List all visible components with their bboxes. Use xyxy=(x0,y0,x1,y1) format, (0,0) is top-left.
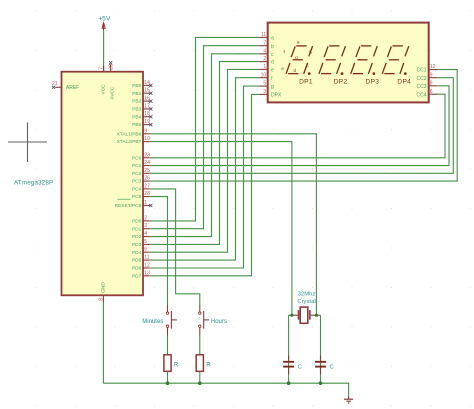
svg-text:2: 2 xyxy=(263,56,266,62)
wire XTAL1/PB6 to crystal right side xyxy=(150,134,317,315)
svg-text:R: R xyxy=(174,363,179,369)
wire resistor R2 to ground rail xyxy=(199,371,201,383)
pin PD0 2 xyxy=(132,215,150,224)
wire PD1 to display segment b xyxy=(150,46,259,229)
svg-text:4: 4 xyxy=(263,48,266,54)
pin PC3 26 xyxy=(132,176,150,185)
pin PC2 25 xyxy=(132,168,150,177)
IC U1 ATmega328P body xyxy=(62,72,144,296)
svg-text:25: 25 xyxy=(144,168,150,174)
svg-text:a: a xyxy=(297,39,300,44)
wire PC3 to display CC1 xyxy=(150,70,457,182)
svg-text:27: 27 xyxy=(144,183,150,189)
svg-text:b: b xyxy=(309,50,312,55)
7-segment digit 2 xyxy=(319,46,346,75)
pin PD5 11 xyxy=(132,255,150,264)
ground symbol xyxy=(344,396,353,403)
svg-text:PC2: PC2 xyxy=(132,171,142,177)
pin PD2 4 xyxy=(132,231,150,240)
svg-text:Crystal: Crystal xyxy=(297,299,315,305)
pin GND 8 xyxy=(98,282,106,303)
svg-text:DP4: DP4 xyxy=(397,79,411,86)
wire PD2 to display segment c xyxy=(150,54,259,237)
svg-text:7: 7 xyxy=(263,40,266,46)
svg-text:4: 4 xyxy=(144,231,147,237)
wire PD3 to display segment d xyxy=(150,62,259,245)
wire Minutes button to resistor R1 xyxy=(167,336,169,355)
svg-text:PD6: PD6 xyxy=(132,266,142,272)
svg-text:Minutes: Minutes xyxy=(142,319,163,325)
svg-text:23: 23 xyxy=(144,152,150,158)
resistor R1 xyxy=(164,355,179,372)
svg-text:15: 15 xyxy=(144,88,150,94)
pin PC4 27 xyxy=(132,183,150,192)
svg-text:10: 10 xyxy=(261,72,267,78)
pushbutton SW1 Minutes xyxy=(142,305,177,336)
svg-text:AVCC: AVCC xyxy=(109,86,115,100)
pin PC5 28 xyxy=(132,191,150,200)
svg-text:DP1: DP1 xyxy=(299,79,313,86)
svg-text:d: d xyxy=(271,60,274,66)
pin PD4 6 xyxy=(132,247,150,256)
wire crystal right node to capacitor C2 xyxy=(320,315,322,383)
svg-text:AREF: AREF xyxy=(66,85,79,91)
pin PC0 23 xyxy=(132,152,150,161)
wire PC4 to Hours button xyxy=(150,189,200,305)
svg-text:PB1: PB1 xyxy=(132,91,141,97)
pushbutton SW2 Hours xyxy=(199,305,227,336)
svg-text:12: 12 xyxy=(430,64,436,70)
svg-text:6: 6 xyxy=(430,89,433,95)
pin PC1 24 xyxy=(132,160,150,169)
svg-text:Hours: Hours xyxy=(211,319,227,325)
cursor crosshair xyxy=(8,123,47,163)
7-segment digit 3 xyxy=(351,46,378,75)
svg-text:R: R xyxy=(206,363,211,369)
pin RESET/PC6 1 (no-connect) xyxy=(115,199,153,209)
wire GND pin to ground rail xyxy=(102,303,104,384)
svg-text:11: 11 xyxy=(144,255,149,261)
svg-text:PC4: PC4 xyxy=(132,187,142,193)
svg-text:XTAL2/PB7: XTAL2/PB7 xyxy=(117,139,142,145)
svg-text:3: 3 xyxy=(144,223,147,229)
svg-text:PB5: PB5 xyxy=(132,122,141,128)
svg-text:PD5: PD5 xyxy=(132,258,142,264)
pin PB5 19 (no-connect) xyxy=(132,119,152,128)
display pin CC3 8 xyxy=(416,80,437,90)
svg-text:1: 1 xyxy=(263,64,266,70)
svg-text:RESET/PC6: RESET/PC6 xyxy=(115,203,142,209)
svg-text:DPX: DPX xyxy=(271,93,282,99)
wire PC0 to display CC4 xyxy=(150,94,445,158)
svg-text:8: 8 xyxy=(98,298,104,301)
resistor R2 xyxy=(196,355,211,372)
svg-text:PD4: PD4 xyxy=(132,250,142,256)
svg-text:28: 28 xyxy=(144,191,150,197)
svg-text:ATmega328P: ATmega328P xyxy=(14,179,53,186)
svg-text:PC5: PC5 xyxy=(132,194,142,200)
svg-text:CC2: CC2 xyxy=(416,76,426,82)
svg-text:32Mhz: 32Mhz xyxy=(298,292,316,298)
svg-text:13: 13 xyxy=(144,270,150,276)
svg-text:g: g xyxy=(295,55,298,60)
pin AREF 21 (no-connect) xyxy=(52,81,79,91)
svg-text:1: 1 xyxy=(144,200,147,206)
wire resistor R1 to ground rail xyxy=(167,371,169,383)
svg-text:DP2: DP2 xyxy=(334,79,348,86)
svg-text:5: 5 xyxy=(263,81,266,87)
label DP1 xyxy=(299,79,313,86)
display pin f 10 xyxy=(259,72,273,82)
svg-text:26: 26 xyxy=(144,176,150,182)
capacitor C2 xyxy=(315,356,334,375)
pin PD7 13 xyxy=(132,270,150,279)
pin PD6 12 xyxy=(132,263,150,272)
pin PD1 3 xyxy=(132,223,150,232)
wire Hours button to resistor R2 xyxy=(199,336,201,355)
svg-text:11: 11 xyxy=(261,32,266,38)
wire +5V to VCC pin xyxy=(103,30,105,72)
svg-text:b: b xyxy=(271,44,274,50)
label DP2 xyxy=(334,79,348,86)
svg-text:8: 8 xyxy=(430,80,433,86)
svg-text:PD0: PD0 xyxy=(132,219,142,225)
7-segment digit 4 xyxy=(382,46,409,75)
svg-text:e: e xyxy=(281,66,284,71)
svg-text:DP3: DP3 xyxy=(366,79,380,86)
pin XTAL2/PB7 10 xyxy=(117,136,150,145)
svg-text:2: 2 xyxy=(144,215,147,221)
svg-text:XTAL1/PB6: XTAL1/PB6 xyxy=(117,131,142,137)
display pin d 2 xyxy=(259,56,274,65)
svg-text:PC1: PC1 xyxy=(132,163,142,169)
power +5V symbol xyxy=(98,15,111,30)
pin VCC 7 xyxy=(99,66,107,95)
pin XTAL1/PB6 9 xyxy=(117,128,150,137)
pin PB4 18 (no-connect) xyxy=(132,111,152,120)
wire PC2 to display CC2 xyxy=(150,78,454,174)
display pin CC4 6 xyxy=(416,89,437,99)
wire PD0 to display segment a xyxy=(150,37,259,221)
crystal Y1 32Mhz xyxy=(289,307,321,323)
junction node R2 / ground rail xyxy=(198,381,202,385)
svg-text:12: 12 xyxy=(144,263,150,269)
svg-text:PD1: PD1 xyxy=(132,226,142,232)
svg-text:10: 10 xyxy=(144,136,150,142)
svg-text:6: 6 xyxy=(144,247,147,253)
svg-text:7: 7 xyxy=(99,67,105,70)
svg-text:17: 17 xyxy=(144,103,150,109)
svg-text:16: 16 xyxy=(144,96,150,102)
svg-text:19: 19 xyxy=(144,119,150,125)
svg-text:d: d xyxy=(293,68,296,73)
pin AVCC 20 (no-connect) xyxy=(108,61,115,99)
svg-text:9: 9 xyxy=(144,128,147,134)
svg-text:e: e xyxy=(271,68,274,74)
pin PD3 5 xyxy=(132,239,150,248)
svg-text:18: 18 xyxy=(144,111,150,117)
svg-text:+5V: +5V xyxy=(98,15,111,22)
wire PC1 to display CC3 xyxy=(150,86,449,166)
label DP4 xyxy=(397,79,411,86)
svg-text:PC0: PC0 xyxy=(132,155,142,161)
svg-text:14: 14 xyxy=(144,80,150,86)
svg-text:20: 20 xyxy=(108,64,114,70)
ground rail wire xyxy=(103,383,348,396)
svg-text:PB0: PB0 xyxy=(132,83,141,89)
display pin CC2 9 xyxy=(416,72,437,82)
junction node C1 / ground rail xyxy=(287,381,291,385)
display pin DPX 3 xyxy=(259,89,282,99)
label DP3 xyxy=(366,79,380,86)
svg-text:24: 24 xyxy=(144,160,150,166)
segment letter labels a,b,c,d,e,f,g xyxy=(281,39,312,73)
7-segment digit 1 xyxy=(286,46,313,75)
svg-text:C: C xyxy=(330,364,334,370)
svg-text:21: 21 xyxy=(52,81,58,87)
svg-text:VCC: VCC xyxy=(101,84,107,95)
svg-text:a: a xyxy=(271,36,274,42)
junction node C2 / ground rail xyxy=(319,381,323,385)
svg-text:PD2: PD2 xyxy=(132,234,142,240)
svg-text:GND: GND xyxy=(101,282,107,293)
svg-text:PD7: PD7 xyxy=(132,273,142,279)
svg-text:PB4: PB4 xyxy=(132,114,141,120)
pin PB2 16 (no-connect) xyxy=(132,96,152,105)
pin PB1 15 (no-connect) xyxy=(132,88,152,97)
display pin a 11 xyxy=(259,32,274,42)
wire PD7 to display segment DPX xyxy=(150,94,259,275)
label 32Mhz Crystal xyxy=(297,292,315,305)
display pin e 1 xyxy=(259,64,274,74)
wire PD6 to display segment g xyxy=(150,86,259,268)
pin PB3 17 (no-connect) xyxy=(132,103,152,112)
display pin b 7 xyxy=(259,40,274,50)
svg-text:PD3: PD3 xyxy=(132,242,142,248)
svg-text:PB3: PB3 xyxy=(132,107,141,113)
IC U1 reference label ATmega328P xyxy=(14,179,53,186)
svg-text:C: C xyxy=(298,364,302,370)
svg-text:CC1: CC1 xyxy=(416,68,426,74)
display pin CC1 12 xyxy=(416,64,437,74)
svg-text:CC4: CC4 xyxy=(416,92,426,98)
svg-text:g: g xyxy=(271,84,274,90)
wire PD5 to display segment f xyxy=(150,78,259,260)
junction node crystal left xyxy=(290,314,293,317)
svg-text:3: 3 xyxy=(263,89,266,95)
wire XTAL2/PB7 to crystal left side xyxy=(150,142,292,316)
svg-text:PB2: PB2 xyxy=(132,99,141,105)
junction node R1 / ground rail xyxy=(166,381,170,385)
wire PC5 to Minutes button xyxy=(150,197,168,305)
wire PD4 to display segment e xyxy=(150,69,259,252)
wire crystal left node to capacitor C1 xyxy=(288,315,290,383)
display pin c 4 xyxy=(259,48,274,58)
display pin g 5 xyxy=(259,81,274,91)
svg-text:CC3: CC3 xyxy=(416,84,426,90)
capacitor C1 xyxy=(283,356,302,375)
display U2 body (4-digit 7-segment) xyxy=(268,23,429,103)
pin PB0 14 (no-connect) xyxy=(132,80,152,89)
svg-text:5: 5 xyxy=(144,239,147,245)
svg-text:9: 9 xyxy=(430,72,433,78)
svg-text:PC3: PC3 xyxy=(132,179,142,185)
junction node crystal right xyxy=(315,314,318,317)
